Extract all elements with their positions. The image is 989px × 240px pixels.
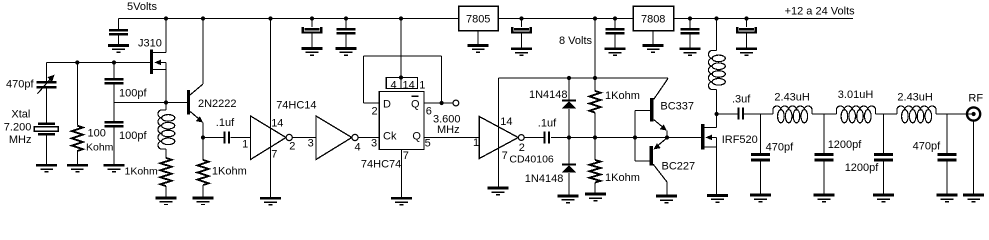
node junction xyxy=(633,135,637,139)
svg-text:470pf: 470pf xyxy=(766,142,794,154)
svg-text:74HC74: 74HC74 xyxy=(361,159,401,171)
svg-text:74HC14: 74HC14 xyxy=(276,99,316,111)
svg-text:1Kohm: 1Kohm xyxy=(125,166,159,178)
svg-text:2: 2 xyxy=(289,140,295,152)
svg-text:Kohm: Kohm xyxy=(86,142,114,154)
svg-text:100: 100 xyxy=(88,128,106,140)
capacitor 100pf upper xyxy=(113,63,115,79)
wire oscillator gate net xyxy=(47,62,150,64)
capacitor 1200pf shunt xyxy=(883,114,885,153)
node rail junction xyxy=(310,16,314,20)
svg-text:D: D xyxy=(383,98,391,110)
ground xyxy=(511,47,532,56)
capacitor electrolytic bypass xyxy=(746,19,748,28)
wire 8V driver net xyxy=(499,77,669,79)
svg-text:IRF520: IRF520 xyxy=(722,134,758,146)
svg-text:7808: 7808 xyxy=(641,14,665,26)
capacitor .1uf xyxy=(224,131,230,143)
node rail junction xyxy=(201,16,205,20)
svg-text:14: 14 xyxy=(271,117,283,129)
svg-text:3: 3 xyxy=(371,138,377,150)
node junction xyxy=(665,135,669,139)
svg-text:3.01uH: 3.01uH xyxy=(838,89,874,101)
wire CD40106 power pins xyxy=(498,78,500,187)
ground xyxy=(558,195,579,204)
ground xyxy=(156,196,177,205)
diode 1N4148 lower xyxy=(568,138,570,164)
svg-text:2.43uH: 2.43uH xyxy=(774,91,810,103)
node A junction xyxy=(75,60,79,64)
wire 8V feed down xyxy=(594,19,596,79)
inductor RF choke xyxy=(716,19,718,51)
transistor IRF520 xyxy=(701,124,705,150)
wire preset hook left xyxy=(362,56,364,103)
wire J310 drain xyxy=(165,19,167,53)
svg-text:8 Volts: 8 Volts xyxy=(559,35,593,47)
wire cap to inverter xyxy=(230,137,250,139)
svg-text:1: 1 xyxy=(242,139,248,151)
svg-text:470pf: 470pf xyxy=(6,79,34,91)
wire L3 to RF xyxy=(936,113,972,115)
node pin box junction xyxy=(399,75,403,79)
svg-text:2: 2 xyxy=(519,142,525,154)
svg-text:1: 1 xyxy=(473,137,479,149)
node rail junction xyxy=(688,16,692,20)
node rail junction xyxy=(744,16,748,20)
inductor oscillator choke xyxy=(165,103,167,111)
capacitor electrolytic bypass xyxy=(311,19,313,28)
svg-text:5Volts: 5Volts xyxy=(127,1,157,13)
svg-text:Q: Q xyxy=(412,130,421,142)
svg-text:4: 4 xyxy=(355,142,361,154)
node junction xyxy=(593,76,597,80)
capacitor electrolytic bypass xyxy=(521,19,523,28)
wire gate out xyxy=(524,137,544,139)
transistor Q 2N2222 xyxy=(187,90,190,115)
svg-text:470pf: 470pf xyxy=(913,140,941,152)
capacitor 470pf shunt xyxy=(946,114,948,153)
ground xyxy=(937,194,958,203)
node rail junction xyxy=(593,16,597,20)
svg-text:100pf: 100pf xyxy=(119,87,147,99)
capacitor ceramic bypass xyxy=(345,19,347,29)
wire Qbar out xyxy=(424,102,454,104)
ground xyxy=(108,44,129,53)
wire preset hook top xyxy=(363,55,441,57)
capacitor bypass at rail left end xyxy=(118,19,120,30)
ground xyxy=(656,195,677,204)
ground xyxy=(336,47,357,56)
wire 7808 ground lead xyxy=(652,31,654,45)
wire 8V rail xyxy=(498,18,633,20)
ground xyxy=(605,47,626,56)
svg-text:BC337: BC337 xyxy=(660,100,694,112)
wire preset hook right xyxy=(441,56,443,103)
ground xyxy=(302,47,323,56)
diode 1N4148 upper xyxy=(568,78,570,100)
svg-text:7.200: 7.200 xyxy=(4,121,32,133)
ground xyxy=(67,164,88,173)
flip-flop U2 74HC74 xyxy=(379,92,424,150)
svg-text:Ck: Ck xyxy=(383,130,397,142)
svg-text:.1uf: .1uf xyxy=(538,117,557,129)
capacitor 470pf shunt xyxy=(760,114,762,153)
node emitter junction xyxy=(201,135,205,139)
regulator 7805 xyxy=(459,6,499,31)
svg-text:14: 14 xyxy=(500,116,512,128)
inverter U3 CD40106 xyxy=(479,117,518,159)
ground xyxy=(468,44,489,53)
capacitor .1uf xyxy=(544,131,550,143)
node drain junction xyxy=(715,112,719,116)
node rail junction xyxy=(519,16,523,20)
svg-text:5: 5 xyxy=(425,138,431,150)
ground xyxy=(260,197,281,206)
node A junction xyxy=(112,60,116,64)
svg-text:1200pf: 1200pf xyxy=(828,139,863,151)
connector RF output xyxy=(967,107,980,120)
wire drain to cap xyxy=(717,113,738,115)
capacitor trimmer 470pf xyxy=(46,63,48,82)
ground xyxy=(736,47,757,56)
svg-text:7: 7 xyxy=(502,150,508,162)
svg-text:7805: 7805 xyxy=(466,14,490,26)
svg-text:Xtal: Xtal xyxy=(11,109,30,121)
svg-text:CD40106: CD40106 xyxy=(509,154,554,166)
ground xyxy=(36,164,57,173)
svg-text:4: 4 xyxy=(391,79,397,91)
transistor J310 xyxy=(150,50,153,75)
transistor Q BC337 xyxy=(634,111,636,138)
node junction xyxy=(567,76,571,80)
ground xyxy=(707,194,728,203)
svg-text:1Kohm: 1Kohm xyxy=(605,90,640,102)
resistor 1Kohm xyxy=(202,138,204,161)
wire 7805 ground lead xyxy=(477,31,479,45)
inverter U1A xyxy=(251,116,287,160)
resistor 1Kohm emitter xyxy=(165,149,167,158)
capacitor .3uf xyxy=(738,108,740,120)
node Qbar junction xyxy=(440,101,444,105)
svg-text:+12 a 24 Volts: +12 a 24 Volts xyxy=(785,6,856,18)
crystal Xtal 7.200 MHz xyxy=(38,123,55,125)
resistor 1Kohm upper xyxy=(594,78,596,91)
svg-text:7: 7 xyxy=(403,150,409,162)
svg-text:14: 14 xyxy=(403,79,415,91)
node junction xyxy=(567,135,571,139)
capacitor 100pf lower xyxy=(113,103,115,122)
wire 2N2222 collector xyxy=(202,19,204,85)
svg-text:7: 7 xyxy=(271,149,277,161)
svg-text:2N2222: 2N2222 xyxy=(198,98,237,110)
svg-text:100pf: 100pf xyxy=(119,130,147,142)
wire 74HC14 power pins xyxy=(270,19,272,197)
wire Q out xyxy=(424,137,479,139)
ground xyxy=(104,164,125,173)
node rail junction xyxy=(399,16,403,20)
ground xyxy=(193,196,214,205)
svg-text:1200pf: 1200pf xyxy=(845,162,880,174)
wire 5V rail xyxy=(119,18,459,20)
svg-text:1N4148: 1N4148 xyxy=(525,173,564,185)
node rail junction xyxy=(714,16,718,20)
resistor 100 Kohm xyxy=(76,63,78,126)
inductor L3 2.43uH xyxy=(897,106,936,123)
svg-text:1Kohm: 1Kohm xyxy=(212,166,247,178)
wire vcc to pins 4 14 xyxy=(400,19,402,78)
ground xyxy=(963,194,984,203)
ground xyxy=(750,194,771,203)
ground xyxy=(814,194,835,203)
terminal open circle xyxy=(453,100,459,106)
svg-text:1: 1 xyxy=(419,79,425,91)
svg-text:2.43uH: 2.43uH xyxy=(897,91,933,103)
regulator 7808 xyxy=(633,6,674,31)
ground xyxy=(873,194,894,203)
capacitor ceramic bypass xyxy=(689,19,691,29)
inductor L1 2.43uH xyxy=(773,106,812,123)
node rail junction xyxy=(613,16,617,20)
svg-text:2: 2 xyxy=(372,106,378,118)
ground xyxy=(488,187,509,196)
wire gateA out xyxy=(292,137,316,139)
ground xyxy=(585,193,606,202)
wire emitter to cap xyxy=(203,137,224,139)
svg-text:Q: Q xyxy=(411,98,420,110)
wire gateB out xyxy=(358,137,379,139)
node junction xyxy=(593,135,597,139)
ground xyxy=(680,47,701,56)
svg-text:1Kohm: 1Kohm xyxy=(605,172,640,184)
node rail junction xyxy=(164,16,168,20)
ground xyxy=(643,44,664,53)
resistor 1Kohm lower xyxy=(594,138,596,161)
wire L2 to L3 xyxy=(876,113,898,115)
wire +12-24V rail xyxy=(674,18,854,20)
wire oscillator feedback net xyxy=(114,102,187,104)
box pins 4 14 xyxy=(386,78,417,89)
svg-text:.3uf: .3uf xyxy=(732,93,751,105)
svg-text:J310: J310 xyxy=(138,37,162,49)
node B junction xyxy=(164,100,168,104)
svg-text:3: 3 xyxy=(308,138,314,150)
inverter U1B xyxy=(316,116,352,160)
wire L1 to L2 xyxy=(812,113,837,115)
capacitor 1200pf shunt xyxy=(823,114,825,153)
inductor L2 3.01uH xyxy=(837,106,876,123)
svg-text:6: 6 xyxy=(426,106,432,118)
svg-text:MHz: MHz xyxy=(437,124,460,136)
node rail junction xyxy=(344,16,348,20)
wire to driver xyxy=(551,137,701,139)
capacitor ceramic bypass xyxy=(614,19,616,29)
svg-text:1N4148: 1N4148 xyxy=(529,89,568,101)
svg-text:RF: RF xyxy=(968,93,983,105)
wire 74HC74 gnd xyxy=(401,150,403,197)
wire cap to L1 xyxy=(744,113,773,115)
svg-text:BC227: BC227 xyxy=(662,161,696,173)
ground xyxy=(391,197,412,206)
svg-text:.1uf: .1uf xyxy=(216,117,235,129)
node rail junction xyxy=(268,16,272,20)
transistor Q BC227 xyxy=(634,138,636,162)
svg-text:MHz: MHz xyxy=(9,134,32,146)
